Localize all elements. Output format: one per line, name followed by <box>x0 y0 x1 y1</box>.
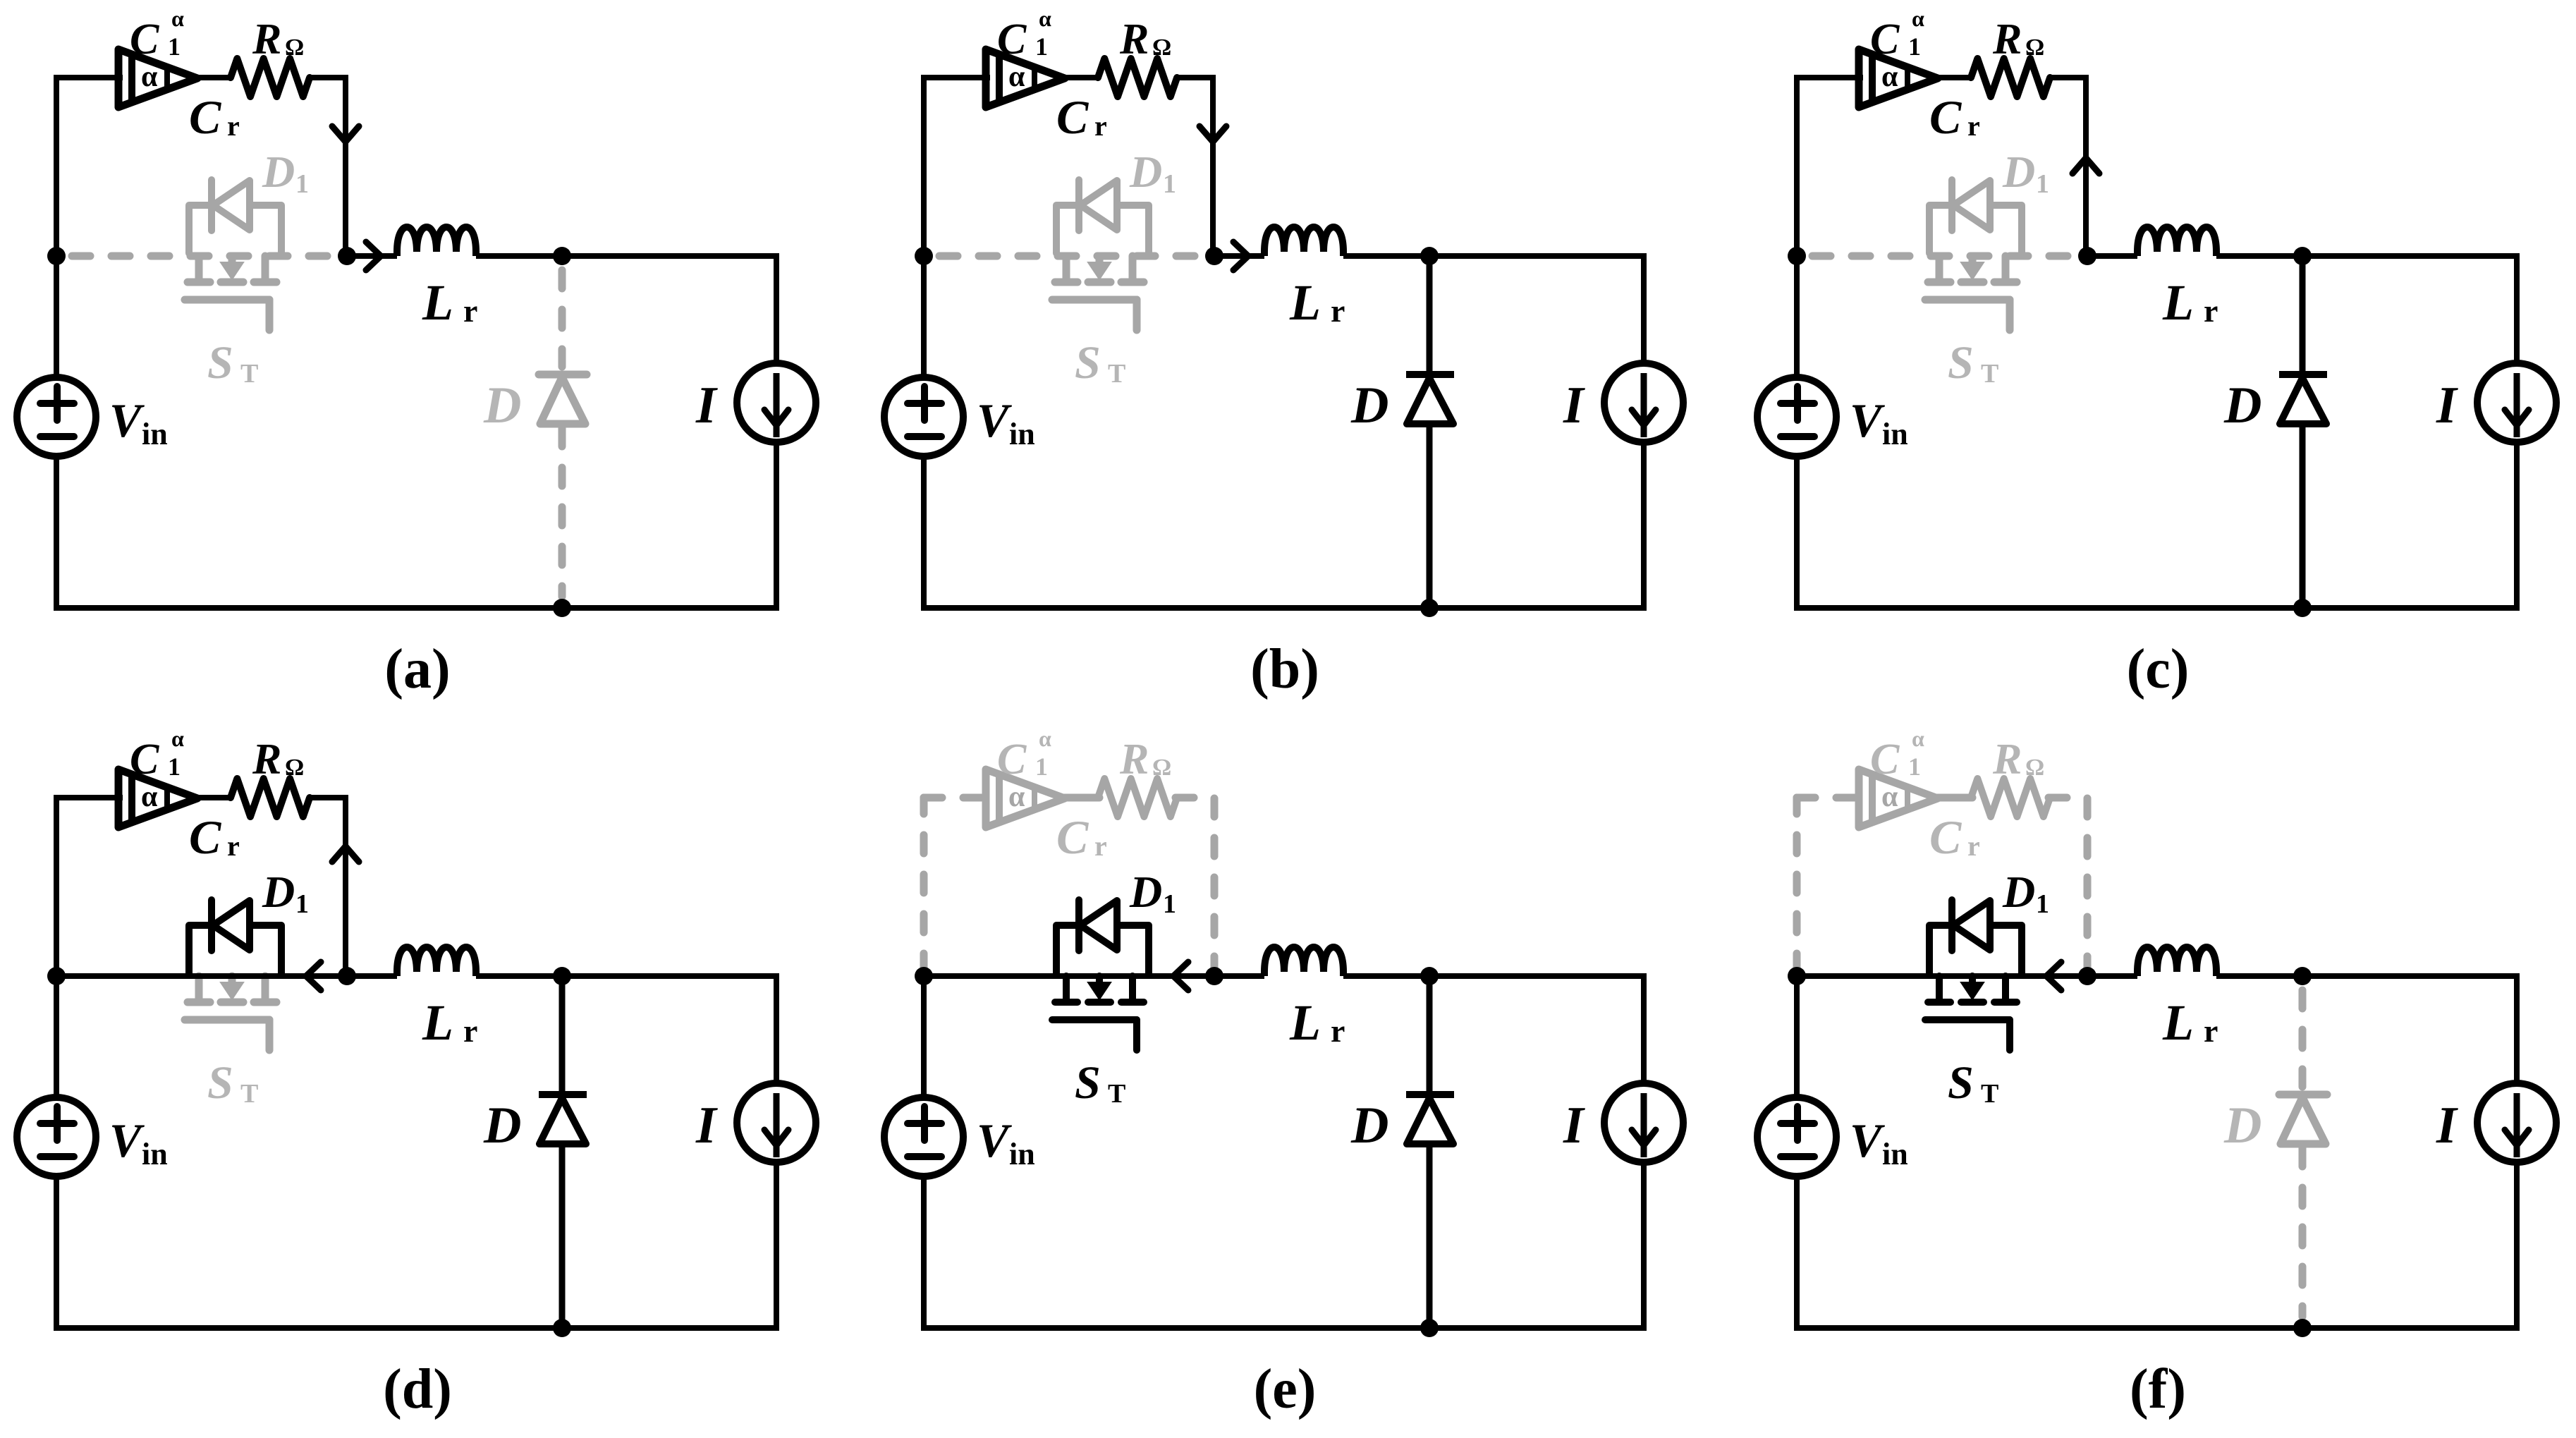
node: circuit (f) junction of Cr branch, switch and inductor <box>2078 967 2096 985</box>
transistor S_T (MOSFET switch): circuit (a) <box>185 256 276 330</box>
node: circuit (e) left rail node <box>915 967 933 985</box>
wire: circuit (a) rail junction to inductor <box>347 253 397 259</box>
svg-text:D: D <box>1129 867 1162 917</box>
node: circuit (e) junction of Cr branch, switch and inductor <box>1205 967 1223 985</box>
transistor S_T body arrow: circuit (f) <box>1961 982 1984 999</box>
wire: circuit (a) left wire, rail node down to Vin <box>54 256 59 377</box>
svg-text:1: 1 <box>1163 889 1176 919</box>
svg-text:r: r <box>2204 293 2218 329</box>
wire: circuit (b) top wire, resistor to top-right corner and drop to junction <box>1176 78 1213 256</box>
svg-text:C: C <box>1870 736 1900 784</box>
wire: circuit (c) left riser from rail node up to top-left corner <box>1794 78 1800 256</box>
wire: circuit (d) inductor to diode D node <box>476 973 562 979</box>
wire: circuit (d) bottom return wire <box>54 1325 779 1331</box>
current arrow (leftward) on rail before junction: circuit (d) <box>306 962 321 990</box>
wire: circuit (d) left riser from rail node up to top-left corner <box>54 798 59 976</box>
current source I: circuit (d) <box>737 1083 816 1162</box>
transistor S_T (MOSFET switch): circuit (d) <box>185 976 276 1050</box>
svg-text:D: D <box>2002 147 2035 197</box>
svg-text:S: S <box>1948 337 1974 389</box>
wire (inactive, dashed): circuit (f) resistor to top-right corner, drop to junction <box>2049 798 2087 972</box>
wire: circuit (a) bottom return wire <box>54 605 779 611</box>
wire (inactive, dashed): circuit (e) left riser from rail node to top-left corner <box>920 798 928 972</box>
svg-text:L: L <box>422 274 453 331</box>
voltage source Vin: circuit (c) <box>1757 377 1836 456</box>
transistor S_T (MOSFET switch): circuit (c) <box>1925 256 2017 330</box>
wire: circuit (b) bottom return wire <box>921 605 1647 611</box>
diode D1 (antiparallel body diode of S_T): circuit (f) <box>1929 900 2022 973</box>
wire: circuit (b) inductor to diode D node <box>1343 253 1429 259</box>
svg-text:α: α <box>1008 61 1025 93</box>
voltage source Vin: circuit (b) <box>884 377 963 456</box>
svg-text:Ω: Ω <box>2025 755 2044 781</box>
svg-text:I: I <box>695 377 718 434</box>
wire (inactive, dashed): circuit (c) rail from left node through switch to junction <box>1812 252 2077 260</box>
wire: circuit (f) left wire, rail node down to Vin <box>1794 976 1800 1097</box>
wire: circuit (c) bottom return wire <box>1794 605 2520 611</box>
svg-text:I: I <box>1563 1097 1585 1154</box>
svg-text:α: α <box>1912 6 1924 31</box>
capacitor C1^alpha (fractional-order capacitor symbol): circuit (d) <box>118 769 197 827</box>
diode D (freewheeling diode): circuit (b) <box>1427 256 1433 371</box>
svg-text:T: T <box>1981 1079 1998 1109</box>
transistor S_T (MOSFET switch): circuit (e) <box>1052 976 1144 1050</box>
svg-text:D: D <box>483 377 521 434</box>
svg-text:Ω: Ω <box>285 35 304 61</box>
voltage source Vin: circuit (d) <box>17 1097 96 1176</box>
node: circuit (f) diode D top node <box>2293 967 2312 985</box>
svg-text:1: 1 <box>2036 889 2049 919</box>
wire: circuit (d) current source I down to bottom-right corner <box>774 1162 779 1331</box>
resistor R_Omega: circuit (f) <box>1971 779 2050 817</box>
svg-text:(d): (d) <box>383 1358 452 1420</box>
svg-text:Ω: Ω <box>1152 755 1171 781</box>
svg-text:α: α <box>1881 61 1898 93</box>
node: circuit (c) diode D bottom node <box>2293 599 2312 617</box>
svg-text:V: V <box>977 394 1012 447</box>
svg-text:C: C <box>189 810 221 864</box>
wire: circuit (c) current source I down to bottom-right corner <box>2514 442 2520 611</box>
svg-text:L: L <box>2162 274 2194 331</box>
svg-text:α: α <box>1039 6 1051 31</box>
svg-text:C: C <box>1870 16 1900 63</box>
wire: circuit (e) rail junction to inductor <box>1214 973 1264 979</box>
wire: circuit (a) current source I down to bottom-right corner <box>774 442 779 611</box>
wire (inactive, dashed): circuit (f) top wire, corner to C1 <box>1797 794 1859 802</box>
wire: circuit (b) Vin down to bottom-left corner <box>921 456 927 611</box>
wire: circuit (c) top-right corner down to current source I <box>2514 253 2520 363</box>
current source I: circuit (e) <box>1604 1083 1683 1162</box>
svg-text:(b): (b) <box>1250 638 1319 700</box>
svg-text:α: α <box>1912 726 1924 751</box>
wire: circuit (e) top-right corner down to current source I <box>1641 973 1647 1083</box>
svg-text:α: α <box>1881 781 1898 813</box>
svg-text:r: r <box>227 830 240 862</box>
resistor R_Omega: circuit (d) <box>231 779 310 817</box>
current arrow (rightward) on rail after junction: circuit (b) <box>1233 242 1248 270</box>
svg-text:D: D <box>1350 377 1388 434</box>
wire: circuit (b) left wire, rail node down to Vin <box>921 256 927 377</box>
transistor S_T body arrow: circuit (c) <box>1961 262 1984 279</box>
current arrow (downward) on Cr branch: circuit (a) <box>332 126 359 142</box>
wire (inactive): circuit (f) top wire, C1 apex to resistor <box>1935 794 1972 802</box>
svg-text:r: r <box>1094 110 1107 142</box>
svg-text:(c): (c) <box>2127 638 2190 700</box>
wire: circuit (e) inductor to diode D node <box>1343 973 1429 979</box>
diode D (freewheeling diode): circuit (d) <box>559 976 566 1091</box>
resistor R_Omega: circuit (a) <box>231 59 310 97</box>
svg-text:in: in <box>142 1137 168 1171</box>
svg-text:L: L <box>1289 274 1321 331</box>
svg-text:C: C <box>1929 810 1962 864</box>
svg-text:C: C <box>189 90 221 144</box>
wire: circuit (f) rail junction to inductor <box>2087 973 2137 979</box>
svg-text:R: R <box>252 16 281 63</box>
node: circuit (f) left rail node <box>1788 967 1806 985</box>
svg-text:T: T <box>1108 1079 1125 1109</box>
inductor Lr: circuit (b) <box>1264 227 1343 256</box>
svg-text:T: T <box>1108 359 1125 389</box>
wire (inactive, dashed): circuit (e) resistor to top-right corner, drop to junction <box>1176 798 1214 972</box>
node: circuit (b) junction of Cr branch, switch and inductor <box>1205 247 1223 265</box>
svg-text:D: D <box>2002 867 2035 917</box>
transistor S_T body arrow: circuit (d) <box>221 982 243 999</box>
svg-text:1: 1 <box>295 889 309 919</box>
wire (inactive, dashed): circuit (b) rail from left node through switch to junction <box>939 252 1204 260</box>
wire: circuit (b) D node to top-right corner <box>1429 253 1644 259</box>
node: circuit (a) diode D top node <box>553 247 571 265</box>
voltage source Vin: circuit (a) <box>17 377 96 456</box>
wire: circuit (c) top wire, resistor to top-right corner and drop to junction <box>2049 78 2086 256</box>
svg-text:1: 1 <box>2036 169 2049 199</box>
capacitor C1^alpha (fractional-order capacitor symbol): circuit (b) <box>986 49 1065 107</box>
resistor R_Omega: circuit (c) <box>1971 59 2050 97</box>
node: circuit (d) junction of Cr branch, switch and inductor <box>338 967 356 985</box>
wire: circuit (b) current source I down to bottom-right corner <box>1641 442 1647 611</box>
svg-text:D: D <box>262 147 295 197</box>
wire: circuit (f) bottom return wire <box>1794 1325 2520 1331</box>
svg-text:in: in <box>1009 1137 1035 1171</box>
inductor Lr: circuit (e) <box>1264 947 1343 976</box>
diode D1 (antiparallel body diode of S_T): circuit (d) <box>189 900 281 973</box>
resistor R_Omega: circuit (b) <box>1098 59 1177 97</box>
svg-text:S: S <box>1948 1057 1974 1109</box>
svg-text:C: C <box>130 16 159 63</box>
wire: circuit (e) bottom return wire <box>921 1325 1647 1331</box>
wire: circuit (d) left wire, rail node down to Vin <box>54 976 59 1097</box>
wire: circuit (a) inductor to diode D node <box>476 253 562 259</box>
svg-text:V: V <box>109 1114 145 1167</box>
wire: circuit (d) top wire, resistor to top-right corner and drop to junction <box>308 798 346 976</box>
node: circuit (a) diode D bottom node <box>553 599 571 617</box>
current arrow (upward) on Cr branch: circuit (d) <box>332 846 359 862</box>
transistor S_T body arrow: circuit (e) <box>1088 982 1111 999</box>
capacitor C1^alpha (fractional-order capacitor symbol): circuit (e) <box>986 769 1065 827</box>
node: circuit (c) junction of Cr branch, switch and inductor <box>2078 247 2096 265</box>
voltage source Vin: circuit (f) <box>1757 1097 1836 1176</box>
svg-text:α: α <box>171 726 184 751</box>
svg-text:1: 1 <box>168 32 181 61</box>
transistor S_T (MOSFET switch): circuit (b) <box>1052 256 1144 330</box>
diode D (freewheeling diode): circuit (a) <box>558 270 566 367</box>
node: circuit (d) diode D top node <box>553 967 571 985</box>
wire: circuit (b) top wire, C1 apex to resistor <box>1062 75 1099 80</box>
svg-text:L: L <box>422 994 453 1051</box>
svg-text:D: D <box>1350 1097 1388 1154</box>
current arrow (rightward) on rail after junction: circuit (a) <box>366 242 381 270</box>
svg-text:Ω: Ω <box>2025 35 2044 61</box>
svg-text:(e): (e) <box>1254 1358 1317 1420</box>
svg-text:in: in <box>1009 417 1035 451</box>
svg-text:Ω: Ω <box>285 755 304 781</box>
svg-text:in: in <box>1882 1137 1908 1171</box>
wire (inactive, dashed): circuit (e) top wire, corner to C1 <box>924 794 986 802</box>
svg-text:V: V <box>1850 1114 1885 1167</box>
svg-text:(a): (a) <box>384 638 450 700</box>
inductor Lr: circuit (c) <box>2137 227 2216 256</box>
svg-text:1: 1 <box>1163 169 1176 199</box>
node: circuit (f) diode D bottom node <box>2293 1319 2312 1337</box>
current source I: circuit (c) <box>2477 363 2556 442</box>
svg-text:α: α <box>1039 726 1051 751</box>
current arrow (downward) on Cr branch: circuit (b) <box>1200 126 1226 142</box>
svg-text:(f): (f) <box>2130 1358 2186 1420</box>
wire (inactive, dashed): circuit (f) left riser from rail node to top-left corner <box>1793 798 1801 972</box>
wire: circuit (d) rail from left node through switch to junction <box>56 973 347 979</box>
svg-text:1: 1 <box>1908 32 1921 61</box>
svg-text:R: R <box>1992 16 2022 63</box>
wire: circuit (d) D node to top-right corner <box>562 973 776 979</box>
wire: circuit (b) left riser from rail node up to top-left corner <box>921 78 927 256</box>
svg-text:T: T <box>240 359 258 389</box>
wire: circuit (a) top-right corner down to current source I <box>774 253 779 363</box>
diode D1 (antiparallel body diode of S_T): circuit (b) <box>1056 180 1149 253</box>
svg-text:r: r <box>1094 830 1107 862</box>
svg-text:α: α <box>171 6 184 31</box>
wire: circuit (f) D node to top-right corner <box>2302 973 2517 979</box>
svg-text:α: α <box>141 61 158 93</box>
node: circuit (b) left rail node <box>915 247 933 265</box>
svg-text:D: D <box>1129 147 1162 197</box>
svg-text:L: L <box>1289 994 1321 1051</box>
inductor Lr: circuit (d) <box>397 947 476 976</box>
svg-text:S: S <box>1075 1057 1101 1109</box>
svg-text:Ω: Ω <box>1152 35 1171 61</box>
svg-text:R: R <box>1119 16 1149 63</box>
svg-text:D: D <box>2223 377 2261 434</box>
node: circuit (d) diode D bottom node <box>553 1319 571 1337</box>
inductor Lr: circuit (a) <box>397 227 476 256</box>
wire: circuit (f) inductor to diode D node <box>2216 973 2302 979</box>
svg-text:1: 1 <box>1035 752 1048 781</box>
current arrow (leftward) on rail before junction: circuit (e) <box>1173 962 1188 990</box>
svg-text:D: D <box>483 1097 521 1154</box>
wire: circuit (a) top wire, C1 apex to resistor <box>195 75 232 80</box>
wire: circuit (a) top wire, corner to fractional capacitor C1 <box>54 75 123 80</box>
wire: circuit (b) top-right corner down to current source I <box>1641 253 1647 363</box>
wire (inactive, dashed): circuit (a) rail from left node through switch to junction <box>72 252 337 260</box>
svg-text:r: r <box>227 110 240 142</box>
wire: circuit (f) Vin down to bottom-left corner <box>1794 1176 1800 1331</box>
svg-text:1: 1 <box>1908 752 1921 781</box>
voltage source Vin: circuit (e) <box>884 1097 963 1176</box>
svg-text:C: C <box>130 736 159 784</box>
svg-text:C: C <box>1929 90 1962 144</box>
svg-text:L: L <box>2162 994 2194 1051</box>
wire: circuit (a) D node to top-right corner <box>562 253 776 259</box>
current arrow (upward) on Cr branch: circuit (c) <box>2073 158 2099 173</box>
inductor Lr: circuit (f) <box>2137 947 2216 976</box>
svg-text:r: r <box>1967 830 1980 862</box>
node: circuit (e) diode D top node <box>1420 967 1439 985</box>
wire: circuit (d) top-right corner down to current source I <box>774 973 779 1083</box>
svg-text:I: I <box>695 1097 718 1154</box>
wire: circuit (d) top wire, C1 apex to resistor <box>195 795 232 800</box>
svg-text:I: I <box>1563 377 1585 434</box>
node: circuit (a) junction of Cr branch, switch and inductor <box>338 247 356 265</box>
svg-text:C: C <box>1056 90 1089 144</box>
current source I: circuit (b) <box>1604 363 1683 442</box>
wire: circuit (c) top wire, C1 apex to resistor <box>1935 75 1972 80</box>
svg-text:r: r <box>463 293 477 329</box>
wire: circuit (c) rail junction to inductor <box>2087 253 2137 259</box>
wire: circuit (c) D node to top-right corner <box>2302 253 2517 259</box>
transistor S_T body arrow: circuit (b) <box>1088 262 1111 279</box>
svg-text:R: R <box>252 736 281 784</box>
svg-text:S: S <box>1075 337 1101 389</box>
svg-text:V: V <box>1850 394 1885 447</box>
wire: circuit (c) top wire, corner to fractional capacitor C1 <box>1794 75 1863 80</box>
wire: circuit (e) D node to top-right corner <box>1429 973 1644 979</box>
svg-text:1: 1 <box>295 169 309 199</box>
transistor S_T (MOSFET switch): circuit (f) <box>1925 976 2017 1050</box>
wire: circuit (e) Vin down to bottom-left corner <box>921 1176 927 1331</box>
wire: circuit (f) rail from left node through switch to junction <box>1797 973 2087 979</box>
capacitor C1^alpha (fractional-order capacitor symbol): circuit (f) <box>1859 769 1938 827</box>
svg-text:D: D <box>2223 1097 2261 1154</box>
svg-text:α: α <box>1008 781 1025 813</box>
svg-text:T: T <box>1981 359 1998 389</box>
node: circuit (d) left rail node <box>47 967 66 985</box>
capacitor C1^alpha (fractional-order capacitor symbol): circuit (a) <box>118 49 197 107</box>
current arrow (leftward) on rail before junction: circuit (f) <box>2046 962 2061 990</box>
svg-text:R: R <box>1119 736 1149 784</box>
svg-text:1: 1 <box>1035 32 1048 61</box>
node: circuit (b) diode D bottom node <box>1420 599 1439 617</box>
node: circuit (c) left rail node <box>1788 247 1806 265</box>
svg-text:r: r <box>1331 293 1345 329</box>
svg-text:α: α <box>141 781 158 813</box>
wire: circuit (c) Vin down to bottom-left corner <box>1794 456 1800 611</box>
wire: circuit (d) rail junction to inductor <box>347 973 397 979</box>
svg-text:in: in <box>1882 417 1908 451</box>
diode D1 (antiparallel body diode of S_T): circuit (e) <box>1056 900 1149 973</box>
wire (inactive): circuit (e) top wire, C1 apex to resistor <box>1062 794 1099 802</box>
svg-text:T: T <box>240 1079 258 1109</box>
wire: circuit (c) inductor to diode D node <box>2216 253 2302 259</box>
svg-text:r: r <box>463 1013 477 1049</box>
current source I: circuit (a) <box>737 363 816 442</box>
svg-text:V: V <box>109 394 145 447</box>
svg-text:r: r <box>1331 1013 1345 1049</box>
wire: circuit (c) left wire, rail node down to Vin <box>1794 256 1800 377</box>
wire: circuit (e) rail from left node through switch to junction <box>924 973 1214 979</box>
svg-text:I: I <box>2436 1097 2458 1154</box>
wire: circuit (d) top wire, corner to fractional capacitor C1 <box>54 795 123 800</box>
svg-text:S: S <box>207 337 233 389</box>
svg-text:D: D <box>262 867 295 917</box>
svg-text:C: C <box>997 16 1027 63</box>
node: circuit (b) diode D top node <box>1420 247 1439 265</box>
diode D (freewheeling diode): circuit (f) <box>2299 990 2307 1087</box>
current source I: circuit (f) <box>2477 1083 2556 1162</box>
wire: circuit (d) Vin down to bottom-left corner <box>54 1176 59 1331</box>
svg-text:C: C <box>1056 810 1089 864</box>
svg-text:S: S <box>207 1057 233 1109</box>
resistor R_Omega: circuit (e) <box>1098 779 1177 817</box>
node: circuit (e) diode D bottom node <box>1420 1319 1439 1337</box>
svg-text:C: C <box>997 736 1027 784</box>
node: circuit (a) left rail node <box>47 247 66 265</box>
wire: circuit (a) top wire, resistor to top-right corner and drop to junction <box>308 78 346 256</box>
transistor S_T body arrow: circuit (a) <box>221 262 243 279</box>
svg-text:I: I <box>2436 377 2458 434</box>
svg-text:r: r <box>2204 1013 2218 1049</box>
svg-text:r: r <box>1967 110 1980 142</box>
diode D1 (antiparallel body diode of S_T): circuit (a) <box>189 180 281 253</box>
wire: circuit (e) left wire, rail node down to Vin <box>921 976 927 1097</box>
wire: circuit (a) Vin down to bottom-left corner <box>54 456 59 611</box>
svg-text:1: 1 <box>168 752 181 781</box>
svg-text:V: V <box>977 1114 1012 1167</box>
svg-text:R: R <box>1992 736 2022 784</box>
diode D (freewheeling diode): circuit (c) <box>2300 256 2306 371</box>
wire: circuit (b) rail junction to inductor <box>1214 253 1264 259</box>
diode D (freewheeling diode): circuit (e) <box>1427 976 1433 1091</box>
wire: circuit (e) current source I down to bottom-right corner <box>1641 1162 1647 1331</box>
wire: circuit (a) left riser from rail node up to top-left corner <box>54 78 59 256</box>
capacitor C1^alpha (fractional-order capacitor symbol): circuit (c) <box>1859 49 1938 107</box>
node: circuit (c) diode D top node <box>2293 247 2312 265</box>
wire: circuit (b) top wire, corner to fractional capacitor C1 <box>921 75 990 80</box>
svg-text:in: in <box>142 417 168 451</box>
wire: circuit (f) top-right corner down to current source I <box>2514 973 2520 1083</box>
diode D1 (antiparallel body diode of S_T): circuit (c) <box>1929 180 2022 253</box>
wire: circuit (f) current source I down to bottom-right corner <box>2514 1162 2520 1331</box>
